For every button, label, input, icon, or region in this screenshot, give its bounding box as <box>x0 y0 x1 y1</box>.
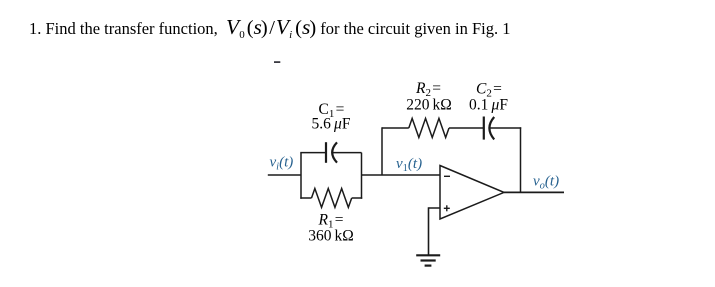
wire: feedback top left segment <box>382 127 409 129</box>
wire: parallel box left edge <box>300 153 302 199</box>
wire: feedback right vertical <box>520 127 522 192</box>
wire: top branch left segment <box>300 152 326 154</box>
op-amp U1 <box>440 166 504 220</box>
svg-text:360 kΩ: 360 kΩ <box>308 228 354 245</box>
label R2 value <box>406 80 452 113</box>
svg-text:vi(t): vi(t) <box>270 154 294 172</box>
wire: non-inverting input lead <box>429 207 441 209</box>
op-amp minus pin mark <box>444 175 450 177</box>
label R1 value <box>308 212 354 245</box>
wire: output lead <box>504 191 564 193</box>
wire: bottom branch left segment <box>300 197 311 199</box>
node label v1(t) <box>396 156 422 174</box>
ground <box>416 255 440 265</box>
label C2 value <box>469 80 508 113</box>
wire: feedback left vertical <box>381 127 383 175</box>
problem title text <box>29 15 510 41</box>
wire: C2 to right corner <box>490 127 522 129</box>
capacitor C1 <box>326 142 337 163</box>
resistor R1 <box>312 189 352 208</box>
op-amp plus pin mark <box>444 205 450 211</box>
wire: input lead <box>268 174 301 176</box>
wire: R2 to C2 <box>449 127 484 129</box>
wire: top branch right segment <box>332 152 361 154</box>
wire: main run to op-amp <box>362 174 441 176</box>
capacitor C2 <box>484 117 494 140</box>
node label vo(t) <box>533 173 559 191</box>
svg-text:v1(t): v1(t) <box>396 156 422 174</box>
wire: parallel box right edge <box>361 153 363 199</box>
svg-text:220 kΩ: 220 kΩ <box>406 96 452 113</box>
resistor R2 <box>409 118 449 137</box>
svg-text:0.1 μF: 0.1 μF <box>469 96 508 113</box>
wire: bottom branch right segment <box>352 197 363 199</box>
label C1 value <box>312 101 351 133</box>
wire: ground drop <box>428 207 430 255</box>
svg-text:vo(t): vo(t) <box>533 173 559 191</box>
stray dash mark <box>274 61 280 63</box>
svg-text:5.6 μF: 5.6 μF <box>312 116 351 133</box>
node label vi(t) <box>270 154 294 172</box>
